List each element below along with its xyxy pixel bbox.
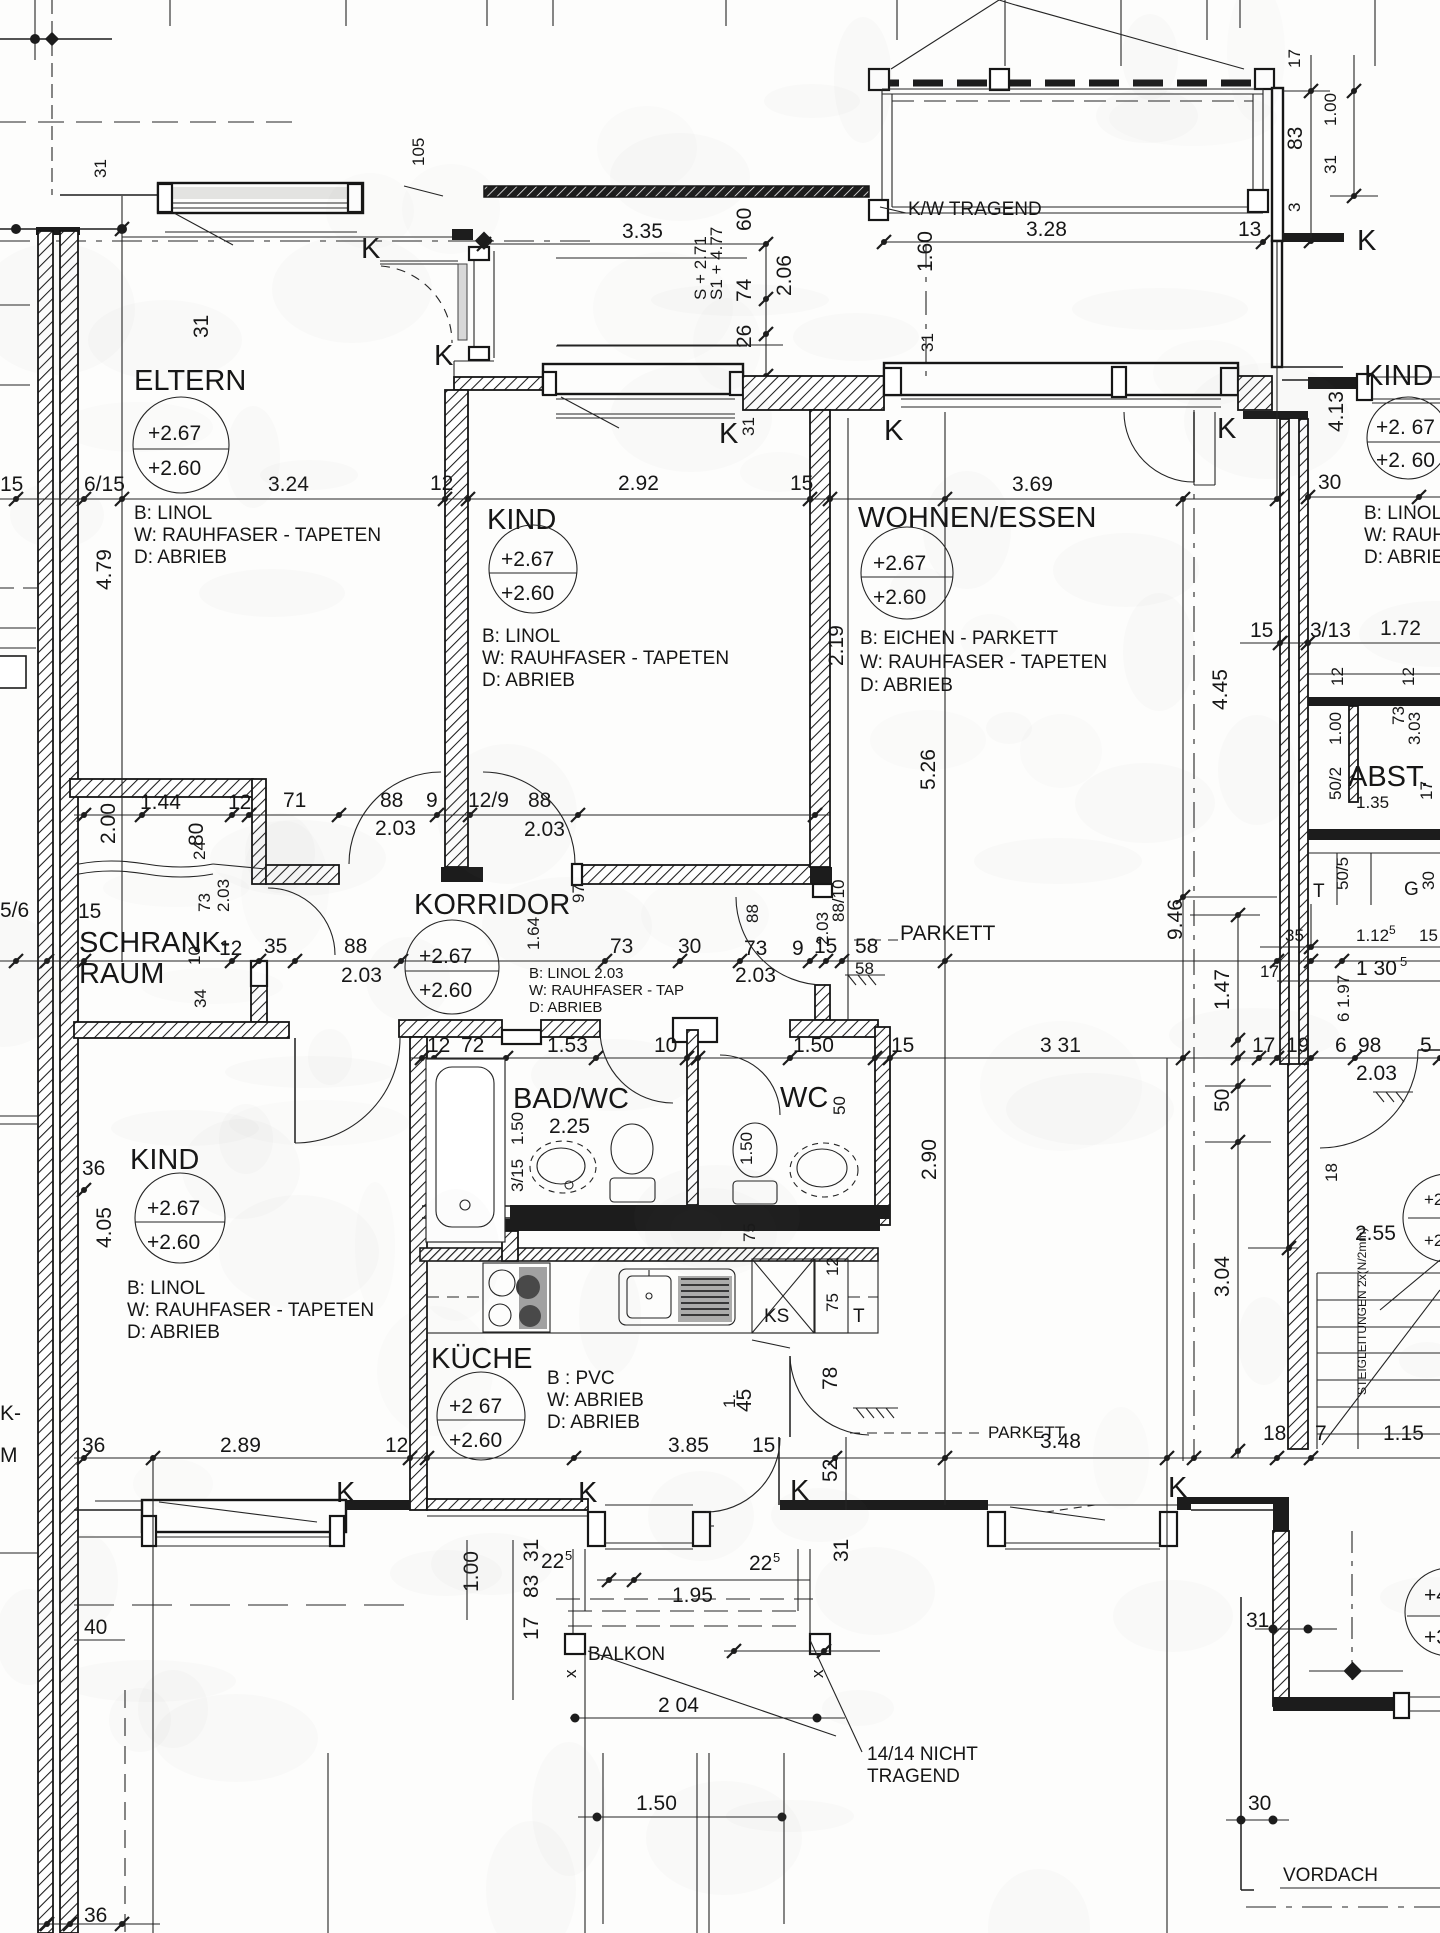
bottom-right level circle (clipped): [1405, 1568, 1440, 1656]
KIND-bottom north wall: [74, 1022, 289, 1038]
stove: [483, 1263, 550, 1332]
svg-text:1.00: 1.00: [1321, 93, 1340, 126]
svg-text:B: LINOL: B: LINOL: [1364, 503, 1440, 524]
svg-text:+2. 60: +2. 60: [1376, 449, 1435, 472]
G / T boxes: [1308, 853, 1440, 905]
svg-text:STEIGLEITUNGEN 2x(N/2mm): STEIGLEITUNGEN 2x(N/2mm): [1355, 1228, 1369, 1395]
svg-text:SCHRANK-: SCHRANK-: [79, 927, 230, 959]
svg-text:+2.60: +2.60: [501, 582, 554, 605]
right top dims 17/83/1.00/31: [1283, 55, 1378, 241]
svg-text:M: M: [0, 1444, 18, 1467]
VORDACH area bottom right: [1240, 1597, 1242, 1890]
svg-text:7: 7: [1315, 1422, 1327, 1445]
door: WOHNEN from corridor: [736, 897, 824, 985]
svg-text:30: 30: [1248, 1792, 1271, 1815]
bottom dim row y=1455: [74, 1457, 1440, 1459]
svg-text:12: 12: [1399, 667, 1418, 686]
loggia door swing (dashed): [381, 266, 452, 343]
earth hatch symbols: [845, 975, 1413, 1418]
svg-text:13: 13: [1238, 218, 1261, 241]
left party double wall: [36, 227, 80, 235]
dim line 2.55 short: [1248, 1247, 1298, 1249]
north wall left segment with ELTERN window: [60, 194, 160, 196]
svg-text:2.03: 2.03: [735, 964, 776, 987]
svg-text:105: 105: [409, 138, 428, 166]
svg-text:3/13: 3/13: [1310, 619, 1351, 642]
svg-text:2.55: 2.55: [1355, 1222, 1396, 1245]
door: WC: [720, 1055, 780, 1115]
svg-text:12: 12: [823, 1257, 842, 1276]
svg-text:12: 12: [430, 472, 453, 495]
svg-text:K: K: [434, 340, 454, 372]
svg-text:1.50: 1.50: [737, 1132, 756, 1165]
svg-text:x: x: [808, 1669, 827, 1678]
svg-text:3.35: 3.35: [622, 220, 663, 243]
svg-text:78: 78: [819, 1367, 842, 1390]
fixtures: WC washbasin: [790, 1143, 858, 1197]
svg-text:9: 9: [426, 789, 438, 812]
svg-text:5: 5: [565, 1548, 572, 1563]
svg-text:3.28: 3.28: [1026, 218, 1067, 241]
right party double wall: [1243, 411, 1308, 419]
svg-text:W: ABRIEB: W: ABRIEB: [547, 1390, 644, 1411]
svg-text:+3: +3: [1424, 1626, 1440, 1649]
svg-text:4.45: 4.45: [1209, 669, 1232, 710]
svg-text:+2.60: +2.60: [148, 457, 201, 480]
svg-text:T: T: [853, 1306, 865, 1327]
svg-text:73: 73: [1389, 706, 1408, 725]
right corridor door arc: [1320, 1050, 1418, 1148]
svg-text:14/14 NICHT: 14/14 NICHT: [867, 1744, 978, 1765]
svg-text:22: 22: [749, 1552, 772, 1575]
svg-text:15: 15: [1419, 926, 1438, 945]
svg-text:K: K: [578, 1477, 598, 1509]
svg-text:17: 17: [1260, 962, 1279, 981]
svg-text:G: G: [1404, 879, 1419, 900]
wall stub right: [1282, 233, 1344, 242]
left margin stubs: [0, 656, 26, 688]
loggia interior floor lines: [556, 257, 747, 259]
svg-text:58: 58: [855, 935, 878, 958]
svg-text:5: 5: [773, 1550, 780, 1565]
corridor north wall right piece: [578, 865, 818, 884]
svg-text:B: EICHEN - PARKETT: B: EICHEN - PARKETT: [860, 628, 1059, 649]
svg-text:50/2: 50/2: [1326, 767, 1345, 800]
loggia front wall band: [484, 186, 869, 197]
main dim row y=499: [0, 498, 1277, 500]
svg-text:5: 5: [1420, 1034, 1432, 1057]
door: KIND top from corridor: [483, 772, 575, 864]
svg-text:2.03: 2.03: [375, 817, 416, 840]
svg-text:15: 15: [1250, 619, 1273, 642]
BAD south wall: [510, 1205, 890, 1219]
loggia posts: [869, 69, 889, 90]
svg-text:12: 12: [1328, 667, 1347, 686]
WOHNEN south wall + window: [878, 1500, 988, 1510]
svg-text:5: 5: [1389, 923, 1396, 937]
svg-text:2.25: 2.25: [549, 1115, 590, 1138]
WC east wall: [875, 1027, 890, 1225]
KS fridge box: [752, 1259, 814, 1333]
verticals through plan: [121, 196, 123, 962]
top margin centerline ticks: [35, 0, 1375, 195]
svg-text:1.50: 1.50: [793, 1034, 834, 1057]
fixtures: WC toilet: [733, 1123, 777, 1177]
svg-text:31: 31: [1321, 155, 1340, 174]
doors: ELTERN south (into niche): [349, 772, 441, 864]
door gap then wall: [780, 1500, 878, 1510]
svg-text:+2.67: +2.67: [147, 1197, 200, 1220]
svg-text:KIND: KIND: [487, 504, 556, 536]
svg-text:1.15: 1.15: [1383, 1422, 1424, 1445]
door: SCHRANK: [268, 888, 335, 955]
leader to 14/14: [588, 1651, 836, 1736]
svg-text:36: 36: [82, 1434, 105, 1457]
svg-text:15: 15: [78, 900, 101, 923]
bath dim row y=1058: [410, 1057, 1440, 1059]
svg-text:35: 35: [1285, 926, 1304, 945]
node row top-left: [0, 38, 112, 40]
svg-text:6 1.97: 6 1.97: [1334, 975, 1353, 1022]
svg-text:+2. 67: +2. 67: [1376, 416, 1435, 439]
svg-text:83: 83: [1284, 127, 1307, 150]
svg-text:15: 15: [0, 473, 23, 496]
roof gable diagonals: [891, 0, 999, 69]
kitchen door 78 arc: [789, 1356, 791, 1437]
svg-text:D: ABRIEB: D: ABRIEB: [482, 670, 575, 691]
svg-text:4.05: 4.05: [93, 1207, 116, 1248]
svg-text:12: 12: [385, 1434, 408, 1457]
svg-text:+2: +2: [1424, 1231, 1440, 1250]
svg-text:x: x: [561, 1669, 580, 1678]
svg-text:15: 15: [752, 1434, 775, 1457]
fixtures: BAD washbasin: [530, 1141, 596, 1193]
fixtures: BAD toilet: [611, 1124, 653, 1174]
T niche: [815, 1259, 848, 1333]
schrank closet wavy lines: [79, 861, 213, 867]
door: KIND bottom: [295, 1038, 400, 1143]
svg-text:D: ABRIEB: D: ABRIEB: [547, 1412, 640, 1433]
svg-text:+2: +2: [1424, 1190, 1440, 1209]
svg-text:+2.67: +2.67: [501, 548, 554, 571]
svg-text:50/5: 50/5: [1333, 857, 1352, 890]
svg-text:K/W TRAGEND: K/W TRAGEND: [908, 199, 1042, 220]
svg-text:TRAGEND: TRAGEND: [867, 1766, 960, 1787]
svg-text:WC: WC: [780, 1082, 828, 1114]
svg-text:PARKETT: PARKETT: [900, 922, 995, 945]
svg-text:75: 75: [823, 1293, 842, 1312]
right wall of loggia: [1272, 88, 1283, 241]
svg-text:3: 3: [1285, 203, 1304, 212]
svg-text:17: 17: [1417, 781, 1436, 800]
loggia thin frame: [882, 89, 1263, 213]
KIND-top north wall: [454, 377, 543, 390]
svg-text:3.69: 3.69: [1012, 473, 1053, 496]
svg-text:1.44: 1.44: [140, 791, 181, 814]
dim 3.28: [884, 241, 1263, 243]
svg-text:K: K: [1357, 225, 1377, 257]
svg-text:VORDACH: VORDACH: [1283, 1865, 1378, 1886]
svg-text:D: ABRIEB: D: ABRIEB: [134, 547, 227, 568]
svg-text:2.90: 2.90: [918, 1139, 941, 1180]
svg-text:D: ABRIEB: D: ABRIEB: [529, 999, 602, 1016]
wall from loggia corner down: [1272, 241, 1282, 367]
svg-text:3/15: 3/15: [508, 1159, 527, 1192]
KIND-bottom east wall: [410, 1037, 427, 1510]
svg-text:30: 30: [1419, 871, 1438, 890]
svg-text:98: 98: [1358, 1034, 1381, 1057]
svg-text:9.46: 9.46: [1164, 899, 1187, 940]
right apartment window: [1308, 377, 1357, 389]
svg-text:3.04: 3.04: [1211, 1256, 1234, 1297]
svg-text:W: RAUHFASER - TAP: W: RAUHFASER - TAP: [529, 982, 684, 999]
svg-text:D: ABRIE: D: ABRIE: [1364, 547, 1440, 568]
balcony bottom dashed: [556, 1549, 813, 1634]
svg-text:36: 36: [82, 1157, 105, 1180]
ELTERN/KIND divider wall: [445, 390, 468, 867]
right dim row y=643: [1240, 642, 1440, 644]
svg-text:3.85: 3.85: [668, 1434, 709, 1457]
svg-text:31: 31: [918, 333, 937, 352]
svg-text:71: 71: [283, 789, 306, 812]
corridor dim row y=815: [74, 814, 830, 816]
wall segment to kitchen: [346, 1500, 410, 1510]
svg-text:4.79: 4.79: [93, 549, 116, 590]
svg-text:1.47: 1.47: [1211, 969, 1234, 1010]
svg-text:1.00: 1.00: [1326, 712, 1345, 745]
svg-text:B: LINOL: B: LINOL: [127, 1278, 205, 1299]
svg-text:1.50: 1.50: [508, 1112, 527, 1145]
sink unit: [619, 1269, 735, 1325]
svg-text:1.95: 1.95: [672, 1584, 713, 1607]
svg-text:PARKETT: PARKETT: [988, 1423, 1065, 1442]
svg-text:+2.60: +2.60: [449, 1429, 502, 1452]
svg-text:9: 9: [792, 937, 804, 960]
wohnen door niche east: [1194, 412, 1215, 485]
svg-text:1.12: 1.12: [1356, 926, 1389, 945]
schrank lower wall jamb: [251, 961, 267, 986]
svg-text:W: RAUHFASER - TAPETEN: W: RAUHFASER - TAPETEN: [134, 525, 381, 546]
svg-text:18: 18: [1322, 1163, 1341, 1182]
svg-text:KIND: KIND: [1364, 360, 1433, 392]
svg-text:D: ABRIEB: D: ABRIEB: [127, 1322, 220, 1343]
svg-text:12: 12: [427, 1034, 450, 1057]
loggia top (balcony) dashed front: [869, 80, 1272, 87]
BAD/WC divider: [687, 1030, 698, 1205]
dashed axis lines left: [0, 121, 294, 123]
svg-text:30: 30: [1318, 471, 1341, 494]
svg-text:2.19: 2.19: [825, 625, 848, 666]
stairs right: [1317, 1260, 1440, 1449]
balcony door arc bottom: [778, 1437, 780, 1505]
dim 3.35 row: [484, 243, 766, 245]
svg-text:50: 50: [830, 1096, 849, 1115]
svg-text:60: 60: [733, 208, 756, 231]
kitchen windows pair: [588, 1512, 605, 1546]
svg-text:31: 31: [91, 159, 110, 178]
svg-text:D: ABRIEB: D: ABRIEB: [860, 675, 953, 696]
jog + loggia door niche: [380, 251, 494, 377]
svg-text:88: 88: [344, 935, 367, 958]
WOHNEN north wall: [743, 376, 884, 410]
kitchen counter row: [427, 1261, 878, 1333]
svg-text:24: 24: [190, 841, 209, 860]
svg-text:2.00: 2.00: [97, 803, 120, 844]
svg-text:52: 52: [819, 1459, 842, 1482]
right mid wall pieces under stairs: [1288, 1531, 1290, 1545]
svg-text:2.03: 2.03: [1356, 1062, 1397, 1085]
svg-text:B: LINOL: B: LINOL: [482, 626, 560, 647]
svg-text:W: RAUH: W: RAUH: [1364, 525, 1440, 546]
svg-text:15: 15: [891, 1034, 914, 1057]
svg-text:2.89: 2.89: [220, 1434, 261, 1457]
svg-text:2 04: 2 04: [658, 1694, 699, 1717]
svg-text:W: RAUHFASER - TAPETEN: W: RAUHFASER - TAPETEN: [482, 648, 729, 669]
corridor north wall left piece: [266, 865, 339, 884]
right dim row y=497 extension: [1308, 496, 1440, 498]
partial circle right edge: [1403, 1174, 1440, 1262]
svg-text:72: 72: [461, 1034, 484, 1057]
SE corner walls: [1177, 1497, 1289, 1504]
door: BAD: [600, 1030, 673, 1103]
mid dim row y=961: [0, 960, 1440, 962]
svg-text:12: 12: [228, 791, 251, 814]
svg-text:2.03: 2.03: [813, 912, 832, 945]
svg-text:2.92: 2.92: [618, 472, 659, 495]
svg-text:17: 17: [520, 1617, 543, 1640]
svg-text:1.: 1.: [720, 1394, 739, 1408]
right apartment mid dims: [1190, 904, 1440, 1458]
KIND-top east wall: [810, 410, 830, 867]
svg-text:B: LINOL: B: LINOL: [134, 503, 212, 524]
ELTERN window: [122, 183, 454, 245]
right apartment: ABST closet: [1308, 697, 1440, 706]
svg-text:1.35: 1.35: [1356, 793, 1389, 812]
svg-text:W: RAUHFASER - TAPETEN: W: RAUHFASER - TAPETEN: [127, 1300, 374, 1321]
south exterior wall: KIND window: [74, 1509, 142, 1511]
svg-text:T: T: [1313, 881, 1325, 902]
svg-text:18: 18: [1263, 1422, 1286, 1445]
svg-text:17: 17: [1285, 49, 1304, 68]
svg-text:K-: K-: [0, 1402, 21, 1425]
ELTERN south wall: [70, 779, 253, 797]
BAD north wall: [399, 1020, 502, 1037]
svg-text:K: K: [884, 415, 904, 447]
kitchen hatched band: [420, 1248, 878, 1261]
fixtures: bathtub: [426, 1059, 505, 1242]
svg-text:KS: KS: [764, 1306, 789, 1327]
svg-text:+2.60: +2.60: [147, 1231, 200, 1254]
schrank east wall: [252, 779, 266, 884]
svg-text:58: 58: [855, 959, 874, 978]
